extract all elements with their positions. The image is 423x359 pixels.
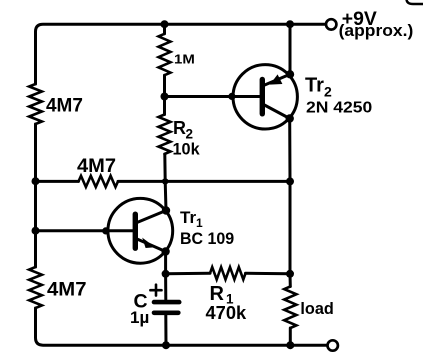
terminal +9V (open circle): [326, 19, 336, 29]
node: Tr1 emitter at circle: [161, 247, 169, 255]
wire: emitter junction down to capacitor: [164, 274, 167, 300]
transistor Tr1 circle: [108, 198, 173, 263]
node: top rail / right rail: [286, 20, 294, 28]
resistor R1: [210, 267, 246, 279]
svg-text:load: load: [300, 299, 333, 318]
transistor Tr1 collector: [137, 211, 166, 223]
svg-text:(approx.): (approx.): [339, 22, 414, 40]
svg-text:1: 1: [196, 216, 203, 230]
transistor Tr2 emitter arrowhead (points toward base, PNP): [270, 74, 283, 84]
resistor 4M7 (top left): [29, 84, 42, 124]
transistor Tr2 circle: [233, 65, 297, 129]
node: Tr2 collector / right rail: [286, 114, 294, 122]
wire: Tr1 base from left rail: [36, 229, 133, 232]
wire: middle rail continues to right rail: [118, 180, 290, 183]
transistor Tr1 base bar: [133, 214, 138, 248]
svg-text:10k: 10k: [173, 141, 201, 159]
resistor load: [284, 287, 296, 329]
svg-text:1M: 1M: [174, 51, 195, 66]
transistor Tr1 emitter arrowhead: [142, 238, 155, 248]
svg-text:BC 109: BC 109: [180, 229, 234, 248]
wire: junction to R1: [166, 272, 210, 276]
figure box corner (top-right): [407, 0, 423, 4]
node: top rail / 1M: [161, 20, 169, 28]
transistor Tr1 emitter (arrow outward, NPN): [137, 239, 166, 252]
transistor Tr2 base bar: [260, 80, 265, 114]
node: 1M / R2 / Tr2 base: [161, 93, 169, 101]
svg-text:4M7: 4M7: [77, 156, 116, 177]
svg-text:Tr: Tr: [305, 74, 324, 96]
node: Tr1 collector at circle: [162, 206, 170, 214]
resistor 1M: [163, 24, 166, 34]
wire: right rail (Tr2 collector down): [288, 119, 291, 182]
node: Tr2 base at circle: [228, 93, 235, 100]
node: middle rail / R2 / Tr1 collector: [162, 178, 168, 184]
svg-text:470k: 470k: [206, 302, 247, 323]
resistor 4M7 (bottom left): [29, 267, 42, 308]
svg-text:1µ: 1µ: [130, 308, 149, 327]
svg-text:2: 2: [324, 83, 332, 99]
node: load / bottom rail: [286, 341, 294, 349]
node: Tr2 emitter / right rail: [286, 70, 294, 78]
wire: top supply rail: [36, 24, 326, 84]
svg-text:Tr: Tr: [180, 208, 196, 227]
wire: left rail bottom + bottom rail: [36, 308, 328, 345]
wire: Tr2 base: [165, 95, 260, 98]
resistor 4M7 (middle, horizontal): [79, 176, 119, 187]
node: emitter / C / R1 junction: [162, 270, 170, 278]
svg-text:4M7: 4M7: [47, 280, 87, 301]
capacitor polarity + sign: [150, 289, 161, 292]
svg-text:2N 4250: 2N 4250: [306, 100, 372, 117]
svg-text:2: 2: [186, 127, 194, 142]
wire: right rail top (supply to Tr2 emitter): [289, 24, 292, 74]
wire: left rail middle segment: [34, 124, 37, 267]
terminal bottom (open circle): [328, 340, 338, 350]
transistor Tr2 collector: [264, 105, 290, 119]
transistor Tr2 emitter (to +9V rail, arrow toward base): [264, 74, 291, 85]
svg-text:R: R: [173, 118, 186, 138]
svg-text:4M7: 4M7: [46, 95, 83, 116]
node: middle rail / right rail: [286, 177, 294, 185]
node: left rail / middle rail: [32, 177, 40, 185]
capacitor C plates: [154, 300, 179, 305]
resistor R2: [159, 115, 171, 155]
node: R1 / right rail: [286, 270, 294, 278]
node: C / bottom rail: [162, 341, 170, 349]
node: left rail / Tr1 base: [32, 227, 40, 235]
node: Tr1 base at circle: [102, 227, 109, 234]
wire: middle rail (left rail to right rail): [36, 180, 79, 183]
